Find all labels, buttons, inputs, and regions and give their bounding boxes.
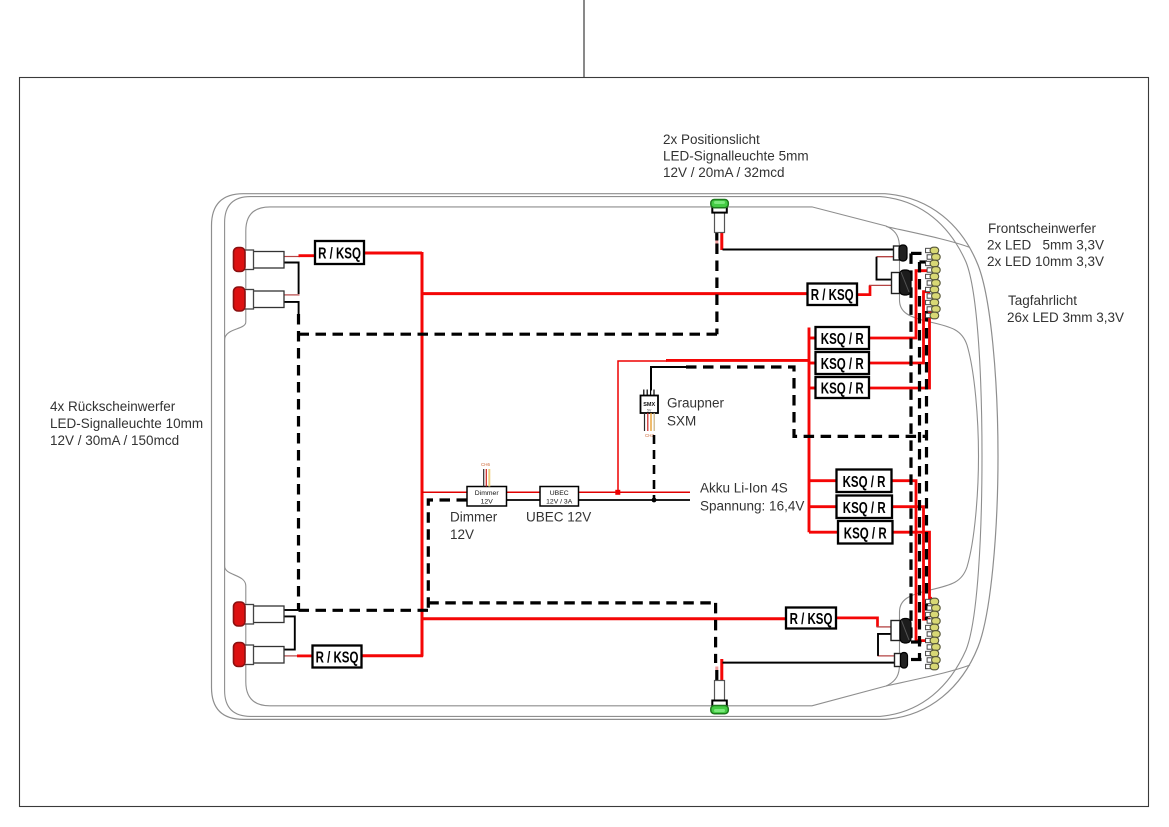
- svg-text:UBEC: UBEC: [550, 490, 569, 497]
- wire red: KSQ/R group4 to DRL strip bottom: [892, 481, 930, 641]
- wire dashed: DRL return vertical 2: [918, 262, 921, 660]
- wire red: front 5mm bottom anode: [878, 655, 895, 657]
- svg-text:12V / 30mA / 150mcd: 12V / 30mA / 150mcd: [50, 433, 179, 448]
- svg-text:Akku Li-Ion 4S: Akku Li-Ion 4S: [700, 481, 788, 496]
- module Dimmer 12V: [467, 487, 507, 507]
- wire red: front 5mm top anode: [877, 256, 894, 258]
- svg-text:Spannung: 16,4V: Spannung: 16,4V: [700, 499, 804, 514]
- svg-text:2x LED 5mm 3,3V: 2x LED 5mm 3,3V: [987, 238, 1104, 253]
- front LED 5mm bottom: [895, 653, 908, 669]
- wire red: R/KSQ bottom-right output to 10mm LED: [836, 618, 878, 627]
- wire red: battery bus thin segments: [422, 491, 690, 493]
- svg-text:12V: 12V: [481, 499, 494, 506]
- wire red: rear LED bottom-left 2 anode from R/KSQ: [284, 655, 298, 657]
- svg-text:12V / 20mA / 32mcd: 12V / 20mA / 32mcd: [663, 165, 785, 180]
- wire black: rear BL LED1 cathode to dashed tee: [284, 609, 298, 611]
- svg-text:SMX: SMX: [643, 402, 655, 408]
- svg-text:LED-Signalleuchte 10mm: LED-Signalleuchte 10mm: [50, 416, 203, 431]
- svg-text:KSQ / R: KSQ / R: [844, 523, 887, 541]
- car body inner line with rear pocket and windshield: [225, 207, 979, 706]
- rear LED bottom-left 2: [234, 643, 285, 667]
- wire dashed: upper ground horizontal y=334: [299, 333, 718, 336]
- wire red: KSQ/R distribution rail x=809: [808, 328, 811, 533]
- svg-text:KSQ / R: KSQ / R: [843, 472, 886, 490]
- label Positionslicht: [663, 132, 809, 180]
- wire red: to R/KSQ bottom-left: [362, 654, 424, 657]
- DRL strip top (13x LED 3mm): [926, 247, 941, 319]
- car body outer outline: [212, 194, 999, 720]
- rear LED top-left 1: [234, 248, 285, 272]
- svg-text:KSQ / R: KSQ / R: [821, 354, 864, 372]
- rear LED bottom-left 1: [234, 602, 285, 626]
- label Frontscheinwerfer: [987, 221, 1104, 269]
- wire black: SXM signal up and over: [651, 367, 686, 391]
- svg-text:2x Positionslicht: 2x Positionslicht: [663, 132, 760, 147]
- wire black: long run position light to front 5mm top: [723, 249, 894, 251]
- wire black: front top 10mm cathode to 5mm: [877, 257, 892, 280]
- wire dashed: dimmer ground drop x=428: [428, 500, 467, 611]
- svg-text:Tagfahrlicht: Tagfahrlicht: [1008, 293, 1077, 308]
- wire black: front bottom 10mm cathode to 5mm: [878, 634, 891, 656]
- position light LED top: [711, 200, 729, 233]
- constant current source R/KSQ top-right: [808, 284, 858, 306]
- constant current source R/KSQ bottom-right: [786, 608, 836, 629]
- position light LED bottom: [711, 681, 729, 714]
- wire red: rail stubs to KSQ/R boxes: [809, 338, 838, 532]
- svg-text:LED-Signalleuchte 5mm: LED-Signalleuchte 5mm: [663, 149, 809, 164]
- wire red: bottom horizontal to R/KSQ bottom-right: [422, 617, 787, 620]
- car body second outline: [225, 197, 982, 717]
- module UBEC 12V/3A: [540, 487, 579, 507]
- constant current source KSQ/R 1: [816, 327, 870, 349]
- label Dimmer: [450, 510, 498, 543]
- svg-text:5V: 5V: [647, 409, 652, 413]
- label Rückscheinwerfer: [50, 399, 203, 448]
- wire red: battery feed up from bus to KSQ/R rail: [618, 361, 667, 493]
- constant current source R/KSQ top-left: [315, 241, 364, 264]
- wire red: KSQ/R group2 to DRL strip top: [869, 292, 930, 363]
- wire black: rear TL LED1 cathode to LED2: [284, 263, 299, 295]
- svg-text:CH6: CH6: [481, 462, 490, 467]
- front LED 10mm top: [892, 270, 912, 295]
- wire dashed: DRL return vertical 3: [925, 311, 928, 620]
- wire black: battery minus bus segments: [506, 499, 690, 501]
- wire dashed: lower ground horizontal left y=610: [299, 609, 429, 612]
- svg-text:R / KSQ: R / KSQ: [316, 648, 359, 666]
- svg-text:Dimmer: Dimmer: [475, 490, 500, 497]
- wire red: rear LED bottom-left 1 anode: [284, 615, 296, 617]
- svg-text:12V / 3A: 12V / 3A: [546, 499, 573, 506]
- wire red: R/KSQ top-right output to 10mm front LED: [857, 285, 871, 294]
- wire black: rear BL chain LED1-LED2: [284, 616, 295, 649]
- front LED 5mm top: [894, 245, 908, 261]
- wire dashed: position light bottom ground riser: [714, 603, 717, 663]
- wire dashed: DRL return vertical 1: [909, 253, 912, 642]
- svg-text:R / KSQ: R / KSQ: [318, 243, 361, 261]
- constant current source KSQ/R 2: [816, 352, 870, 374]
- wire red: KSQ/R group1 to DRL strip top: [869, 271, 930, 338]
- label Akku: [700, 481, 804, 514]
- svg-text:R / KSQ: R / KSQ: [811, 285, 854, 303]
- wire red: position light bottom lead: [720, 659, 723, 681]
- module Graupner SXM: [641, 390, 659, 501]
- DRL strip bottom (13x LED 3mm): [926, 598, 941, 670]
- svg-text:KSQ / R: KSQ / R: [821, 329, 864, 347]
- wire dashed: SXM ground over and down: [686, 367, 925, 436]
- wire red: rear LED top-left 2 anode: [284, 294, 300, 296]
- wire dashed: DRL return stubs: [911, 252, 923, 255]
- wire black: long run position light bottom to front 5mm bottom: [723, 662, 895, 664]
- svg-text:Frontscheinwerfer: Frontscheinwerfer: [988, 221, 1097, 236]
- wire black: position light bottom cathode lead: [715, 670, 718, 681]
- wire red: R/KSQ top-left output to main vertical: [364, 252, 423, 255]
- svg-text:4x Rückscheinwerfer: 4x Rückscheinwerfer: [50, 399, 176, 414]
- wire red: main vertical bus x=422: [421, 252, 424, 657]
- constant current source R/KSQ bottom-left: [313, 646, 362, 668]
- wire black: rear TL LED2 cathode down: [284, 302, 299, 314]
- wire red: rear LED top-left 1 anode: [284, 256, 300, 258]
- wire dashed: left ground vertical x=298.5: [297, 314, 300, 610]
- constant current source KSQ/R 3: [816, 377, 870, 398]
- wire red: top horizontal to R/KSQ top-right: [422, 292, 808, 295]
- wire black: position light top cathode lead: [715, 233, 718, 241]
- svg-text:Dimmer: Dimmer: [450, 510, 498, 525]
- stray leader line top center: [583, 0, 585, 77]
- svg-text:2x LED 10mm 3,3V: 2x LED 10mm 3,3V: [987, 254, 1104, 269]
- svg-text:12V: 12V: [450, 527, 474, 542]
- junction battery minus: [652, 498, 657, 503]
- svg-text:SXM: SXM: [667, 414, 696, 429]
- constant current source KSQ/R 5: [837, 496, 893, 519]
- wire dashed: position light top ground drop: [715, 244, 718, 335]
- wire red: KSQ/R group5 to DRL strip bottom: [892, 507, 930, 620]
- constant current source KSQ/R 4: [837, 470, 892, 493]
- car hood line front bottom: [886, 665, 970, 686]
- wire red: KSQ/R group3 to DRL strip top: [869, 313, 932, 388]
- wire dashed: lower ground horizontal right y=603: [428, 601, 715, 604]
- svg-text:26x LED 3mm 3,3V: 26x LED 3mm 3,3V: [1007, 310, 1124, 325]
- Dimmer servo lead: [481, 462, 490, 487]
- label Graupner SXM: [667, 396, 725, 429]
- svg-text:KSQ / R: KSQ / R: [843, 498, 886, 516]
- svg-text:Graupner: Graupner: [667, 396, 725, 411]
- wire red: KSQ/R group6 to DRL strip bottom: [892, 532, 932, 598]
- svg-text:R / KSQ: R / KSQ: [790, 609, 833, 627]
- junction battery plus: [615, 490, 620, 495]
- wire red: position light top lead: [720, 233, 723, 251]
- constant current source KSQ/R 6: [838, 521, 893, 544]
- front LED 10mm bottom: [891, 619, 911, 644]
- rear LED top-left 2: [234, 287, 285, 311]
- car hood line front top: [886, 227, 970, 248]
- label Tagfahrlicht: [1007, 293, 1124, 325]
- svg-text:KSQ / R: KSQ / R: [821, 378, 864, 396]
- svg-text:UBEC 12V: UBEC 12V: [526, 510, 591, 525]
